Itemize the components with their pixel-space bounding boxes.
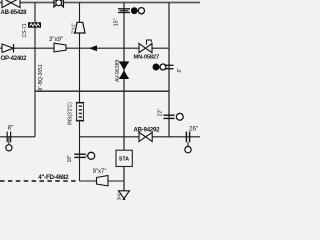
svg-text:AB-94292: AB-94292: [134, 128, 161, 134]
svg-text:9"x7": 9"x7": [93, 169, 107, 175]
svg-text:2"x1": 2"x1": [71, 23, 77, 34]
svg-text:22": 22": [158, 109, 164, 117]
svg-text:4"-FD-4682: 4"-FD-4682: [38, 174, 69, 181]
svg-text:8": 8": [8, 124, 14, 131]
svg-text:6": 6": [177, 68, 183, 73]
svg-text:18": 18": [67, 155, 73, 163]
svg-text:OP-42402: OP-42402: [1, 56, 28, 62]
svg-text:3"x9": 3"x9": [49, 36, 63, 43]
svg-text:15": 15": [113, 18, 119, 26]
svg-text:MN-05827: MN-05827: [134, 55, 159, 61]
svg-text:3/4": 3/4": [116, 192, 121, 200]
svg-text:26": 26": [189, 125, 198, 132]
svg-text:8"-BQ-3651: 8"-BQ-3651: [38, 64, 44, 90]
svg-text:AV-96389: AV-96389: [115, 59, 121, 82]
svg-text:INS(3'2'C): INS(3'2'C): [68, 102, 74, 125]
svg-text:CS-71: CS-71: [22, 23, 28, 37]
svg-text:AB-85428: AB-85428: [1, 10, 28, 16]
svg-text:STA: STA: [119, 157, 129, 163]
